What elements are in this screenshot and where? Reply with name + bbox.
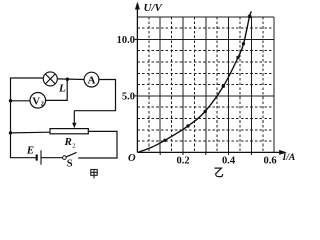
ammeter A xyxy=(84,72,99,87)
data point 6 xyxy=(242,42,245,45)
graph minor vertical gridlines (dashed, 0.05A steps) xyxy=(149,17,263,153)
wire top-left loop: left vertical + top horizontal xyxy=(11,78,44,158)
svg-text:E: E xyxy=(26,145,34,157)
data point 4 xyxy=(222,85,225,88)
wire battery to switch xyxy=(41,157,62,159)
y-axis tick 5.0 xyxy=(135,95,138,97)
wire lamp to ammeter xyxy=(57,78,84,81)
lamp L xyxy=(43,72,57,86)
wire bottom-left to battery xyxy=(10,157,36,159)
svg-text:0.4: 0.4 xyxy=(222,156,236,167)
svg-text:I/A: I/A xyxy=(282,153,296,163)
svg-text:V: V xyxy=(32,96,40,107)
x-axis ticks xyxy=(160,152,251,155)
label yi (Chinese) drawn as strokes xyxy=(214,168,222,177)
solid gridline 10.0V xyxy=(137,38,274,40)
wire ammeter right, down, left to rheostat arrow corner xyxy=(74,80,115,111)
svg-text:L: L xyxy=(58,83,66,95)
svg-text:0.2: 0.2 xyxy=(176,156,189,167)
y-axis U/V with arrow xyxy=(136,5,138,153)
graph top border line xyxy=(137,16,274,18)
wire left wire to rheostat xyxy=(11,131,51,134)
svg-text:U/V: U/V xyxy=(144,2,164,14)
svg-text:O: O xyxy=(128,153,136,164)
switch S lever xyxy=(65,152,77,157)
svg-text:R: R xyxy=(64,136,72,148)
svg-text:S: S xyxy=(67,159,73,170)
switch pivot circle xyxy=(63,156,67,160)
svg-text:2: 2 xyxy=(72,143,75,150)
graph right border line (0.6A) xyxy=(273,17,275,153)
wire voltmeter right up to top node xyxy=(46,79,68,100)
rheostat R2 body xyxy=(50,129,88,134)
wire left to voltmeter xyxy=(11,100,31,102)
y-axis tick 10.0 xyxy=(135,38,138,40)
data point 3 xyxy=(204,110,207,113)
svg-text:0.6: 0.6 xyxy=(263,156,276,167)
data point 5 xyxy=(236,56,239,59)
node junction dot top xyxy=(66,78,69,81)
data point 2 xyxy=(186,124,189,127)
svg-text:5.0: 5.0 xyxy=(122,92,135,103)
U-I characteristic curve xyxy=(137,12,251,153)
data point 7 xyxy=(248,15,252,19)
node junction dot left rheostat xyxy=(9,131,12,134)
battery long thin positive plate xyxy=(40,150,42,164)
solid gridline 5.0V xyxy=(137,95,274,97)
node junction dot left V2 xyxy=(9,99,12,102)
x-axis I/A with arrow xyxy=(137,151,283,153)
svg-text:10.0: 10.0 xyxy=(117,35,135,46)
svg-text:2: 2 xyxy=(41,100,44,107)
svg-text:A: A xyxy=(88,75,96,87)
label jia (Chinese) drawn as strokes xyxy=(91,170,97,179)
rheostat wiper arrow xyxy=(73,111,75,125)
voltmeter V2 xyxy=(30,93,46,109)
graph minor horizontal gridlines (dashed, 1V steps) xyxy=(137,28,274,141)
graph major vertical gridlines (solid, 0.1A steps) xyxy=(160,17,251,153)
wire rheostat right down to bottom xyxy=(78,131,117,158)
battery cell E: short thick negative plate xyxy=(36,155,38,161)
data point 1 xyxy=(163,139,166,142)
